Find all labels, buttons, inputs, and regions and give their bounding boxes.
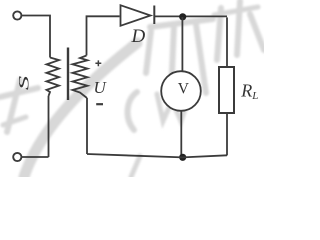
wire voltmeter bottom lead: [180, 111, 182, 157]
terminal J1 (top-left): [13, 11, 21, 19]
transformer core: [67, 48, 69, 101]
wire primary bottom lead: [48, 96, 50, 157]
terminal J2 (bottom-left): [13, 153, 21, 161]
wire J1 to primary top: [22, 16, 51, 58]
wire bottom-left to J2: [22, 156, 49, 158]
label +: [95, 60, 101, 66]
svg-text:S: S: [15, 75, 32, 90]
wire RL bottom lead: [226, 113, 228, 155]
voltmeter V: [161, 71, 201, 111]
node junction top: [179, 13, 186, 20]
wire top-right corner down to RL: [226, 17, 228, 67]
label minus: [96, 103, 103, 105]
svg-text:D: D: [131, 26, 146, 47]
wire diode cathode to top-right corner: [154, 15, 227, 17]
wire secondary bottom lead: [86, 98, 88, 154]
diode D: [121, 5, 228, 26]
resistor RL: [219, 67, 234, 113]
svg-text:V: V: [178, 81, 190, 98]
wire bottom rail: [87, 154, 227, 157]
node junction bottom: [179, 154, 186, 161]
wire voltmeter top lead: [181, 17, 183, 72]
wire secondary top lead: [87, 16, 120, 55]
svg-text:U: U: [94, 78, 108, 97]
transformer primary winding: [47, 58, 60, 97]
transformer secondary winding: [73, 56, 88, 99]
